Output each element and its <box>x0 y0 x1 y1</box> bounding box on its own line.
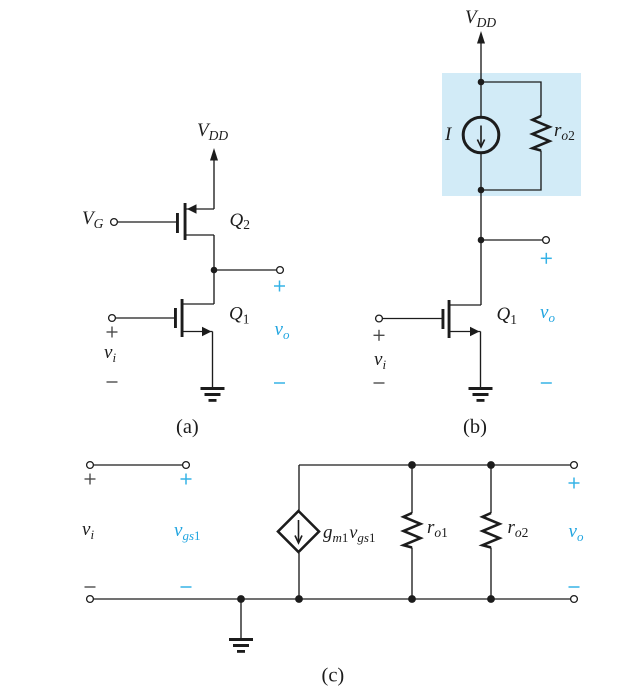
svg-text:vo: vo <box>569 521 584 544</box>
svg-text:(c): (c) <box>322 665 345 687</box>
svg-text:VG: VG <box>82 208 104 231</box>
svg-text:ro1: ro1 <box>427 517 448 540</box>
svg-text:vgs1: vgs1 <box>174 520 201 543</box>
svg-text:Q1: Q1 <box>229 304 249 327</box>
svg-text:VDD: VDD <box>465 7 496 30</box>
svg-text:vi: vi <box>104 342 116 365</box>
svg-text:vi: vi <box>374 349 386 372</box>
svg-text:ro2: ro2 <box>508 517 529 540</box>
svg-text:vo: vo <box>540 302 555 325</box>
svg-text:VDD: VDD <box>197 120 228 143</box>
svg-text:(b): (b) <box>463 416 487 438</box>
svg-text:(a): (a) <box>176 416 199 438</box>
svg-text:Q2: Q2 <box>230 210 250 232</box>
svg-text:vi: vi <box>82 519 94 542</box>
svg-text:vo: vo <box>275 319 290 342</box>
svg-text:Q1: Q1 <box>497 304 517 327</box>
svg-text:gm1vgs1: gm1vgs1 <box>323 522 375 545</box>
